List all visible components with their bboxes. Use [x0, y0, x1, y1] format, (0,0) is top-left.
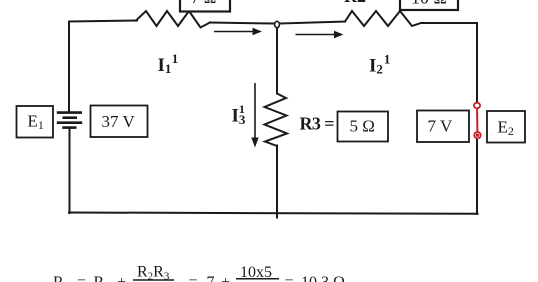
terminal top (open red circle)	[474, 103, 480, 109]
svg-text:I21: I21	[369, 52, 390, 77]
value box 10 ohm for R2 (cut off at top)	[400, 0, 458, 10]
wire node to R2	[281, 22, 346, 24]
battery E1	[57, 113, 82, 128]
bottom wire	[69, 213, 478, 214]
value box 7 ohm for R1 (cut off at top)	[180, 0, 230, 12]
value box 5 ohm	[338, 112, 389, 142]
svg-text:R: R	[94, 274, 105, 282]
label box E1	[17, 106, 54, 138]
formula left part: RT = R1 + (cut off at bottom)	[53, 274, 126, 282]
wire top-left horizontal	[69, 21, 137, 22]
terminal bottom (red circle with dot)	[474, 132, 480, 138]
middle wire lower (R3 to bottom, small overshoot)	[276, 146, 278, 218]
svg-text:7 V: 7 V	[428, 117, 453, 136]
value box 7 V	[417, 111, 469, 143]
node A (top junction circle)	[275, 21, 280, 27]
svg-text:=: =	[285, 274, 294, 282]
svg-text:37 V: 37 V	[102, 112, 136, 131]
wire R2 to top-right corner and right wire upper	[421, 23, 477, 102]
formula right part: = 10.3 ohm (cut off at bottom)	[285, 274, 346, 282]
svg-text:+: +	[117, 274, 126, 282]
svg-text:5 Ω: 5 Ω	[350, 117, 375, 136]
svg-text:I31: I31	[232, 102, 246, 127]
resistor R1	[136, 11, 210, 28]
current arrow I2	[296, 31, 344, 38]
svg-text:R2: R2	[344, 0, 366, 6]
svg-text:7: 7	[207, 274, 215, 282]
value box 37 V	[91, 106, 148, 138]
current arrow I1	[214, 28, 262, 35]
right wire lower	[476, 139, 478, 214]
svg-text:=: =	[189, 274, 198, 282]
left wire upper	[68, 22, 70, 112]
current arrow I3 (downward)	[251, 83, 258, 148]
resistor R3	[265, 94, 288, 147]
red link wire between terminals	[476, 106, 479, 136]
resistor R2	[345, 11, 421, 26]
label box E2	[487, 111, 525, 143]
formula middle part: = 7 +	[189, 274, 231, 282]
left wire lower	[69, 129, 71, 214]
formula fraction bar 1	[133, 279, 174, 281]
svg-text:R3 =: R3 =	[300, 114, 335, 134]
svg-text:R: R	[53, 274, 64, 282]
svg-text:10.3 Ω: 10.3 Ω	[301, 274, 345, 282]
formula fraction bar 2	[236, 278, 279, 280]
svg-text:R2R3: R2R3	[137, 264, 170, 282]
wire R1 to node	[210, 23, 274, 24]
svg-text:10 Ω: 10 Ω	[411, 0, 447, 8]
svg-text:+: +	[221, 274, 230, 282]
svg-text:7 Ω: 7 Ω	[191, 0, 216, 7]
svg-text:I11: I11	[158, 51, 179, 76]
svg-text:=: =	[77, 274, 86, 282]
middle wire upper (node to R3)	[276, 28, 278, 94]
